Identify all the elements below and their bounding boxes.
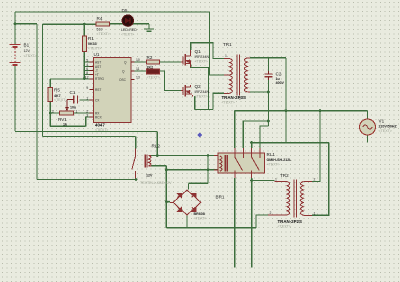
svg-text:U1: U1 [94, 52, 100, 57]
wire box top RTRG [50, 78, 91, 80]
svg-text:<TEXT>: <TEXT> [195, 94, 208, 98]
IC U1 4047 [94, 58, 132, 123]
wire C1 to CX pin [80, 99, 92, 101]
svg-text:12V: 12V [24, 49, 31, 53]
wire bridge top vertical [188, 183, 190, 189]
wire LED to ground [132, 23, 149, 25]
wire TR1 sec bottom to C2 [250, 91, 268, 93]
svg-text:0K33: 0K33 [88, 42, 97, 46]
svg-text:IRFZ44N: IRFZ44N [195, 55, 210, 59]
svg-text:LED-RED: LED-RED [121, 28, 137, 32]
svg-text:1k: 1k [63, 123, 67, 127]
svg-text:220V/50HZ: 220V/50HZ [379, 125, 398, 129]
svg-text:TR2: TR2 [280, 173, 289, 178]
IC right pin stubs [131, 61, 135, 63]
svg-text:D5: D5 [122, 8, 128, 13]
wire V1 bottom lead [367, 135, 369, 143]
svg-text:<TEXT>: <TEXT> [195, 59, 208, 63]
wire ground to RL2 coil wire [156, 132, 158, 156]
RL1 bottom pin stubs [235, 173, 252, 178]
svg-text:1: 1 [275, 178, 277, 182]
svg-text:2: 2 [314, 178, 316, 182]
svg-text:<TEXT>: <TEXT> [147, 76, 160, 80]
svg-text:TRAN-2P2S: TRAN-2P2S [278, 219, 302, 224]
IC left pin stubs [90, 61, 94, 63]
TR2 secondary winding [301, 182, 304, 216]
wire Q2 source [194, 96, 196, 109]
wire battery minus lead [14, 66, 16, 132]
wire RV1 right to RX pin [73, 112, 91, 114]
wire bottom rail [166, 227, 256, 229]
svg-text:Q1: Q1 [195, 49, 202, 54]
TR2 core [294, 180, 297, 218]
wire box left edge lower [49, 101, 51, 126]
TR2 primary winding [287, 182, 290, 216]
svg-text:9: 9 [86, 86, 88, 90]
svg-text:<TEXT>: <TEXT> [121, 33, 134, 37]
wire bridge top link [189, 182, 209, 184]
wire mains neutral to TR2 pin1 [312, 143, 329, 216]
LED D5 [122, 15, 133, 26]
svg-text:OSC: OSC [119, 78, 127, 82]
svg-text:<TEXT>: <TEXT> [54, 98, 67, 102]
wire battery line down to center tap [210, 12, 225, 75]
svg-text:13: 13 [136, 76, 140, 80]
svg-text:10: 10 [136, 58, 140, 62]
svg-text:RL2: RL2 [152, 144, 161, 149]
svg-text:C1: C1 [70, 90, 76, 95]
wire R1 top lead [83, 24, 85, 36]
wire box bottom [50, 125, 85, 127]
svg-text:1: 1 [76, 109, 78, 113]
svg-text:AST: AST [95, 61, 101, 65]
wire bridge bottom drop [186, 215, 188, 228]
svg-text:R1: R1 [88, 36, 94, 41]
wire MOSFET source tie rail [195, 109, 213, 111]
RL1 coil [220, 156, 222, 171]
relay RL2 [132, 149, 152, 179]
svg-text:C2: C2 [276, 72, 282, 77]
potentiometer RV1 [60, 111, 74, 115]
wire TR1 top vertical down [285, 58, 287, 143]
RL2 contact [135, 149, 137, 157]
svg-text:510: 510 [97, 28, 103, 32]
svg-text:1: 1 [225, 54, 227, 58]
svg-text:R2: R2 [147, 55, 153, 60]
wire relay to TR2 pin top left [252, 180, 275, 182]
wire R3 to Q2 gate [160, 71, 181, 91]
svg-text:Q2: Q2 [195, 84, 202, 89]
wire RL1 left pin 2 feed [166, 169, 217, 171]
RL2 coil [148, 156, 151, 166]
wire Q1 drain jog [191, 43, 224, 59]
svg-text:RCX: RCX [95, 116, 103, 120]
svg-text:B1: B1 [24, 43, 30, 48]
wire RV1 left [50, 112, 59, 114]
svg-text:<TEXT>: <TEXT> [95, 128, 108, 132]
wire branch battery to left vertical [15, 23, 37, 25]
resistor R4 [96, 22, 110, 26]
svg-text:2: 2 [270, 211, 272, 215]
svg-text:BR608: BR608 [194, 212, 205, 216]
wire RL2 coil top to RL1 left pin 1 [151, 155, 218, 157]
TR1 primary winding lower [230, 76, 233, 94]
wire rail to RL2 contact [37, 179, 136, 181]
transformer TR1 [224, 55, 250, 96]
svg-text:3: 3 [86, 114, 88, 118]
wire relay pin3 drop [251, 143, 253, 148]
svg-text:<TEXT>: <TEXT> [88, 47, 101, 51]
wire box left edge upper [49, 79, 51, 87]
transformer TR2 [268, 180, 312, 218]
RL1 left pin stubs [214, 156, 218, 170]
wire relay bottom dangling 1 [234, 178, 236, 268]
svg-text:<TEXT>: <TEXT> [24, 54, 37, 58]
relay RL1 [218, 153, 265, 173]
TR1 primary winding upper [230, 59, 233, 76]
resistor R2 [147, 60, 160, 64]
wire Q2 to TR1 pin3 [213, 93, 224, 109]
svg-text:400V: 400V [276, 81, 285, 85]
RL1 contact poles [235, 153, 244, 158]
svg-text:TRAN-2P3S: TRAN-2P3S [222, 95, 246, 100]
svg-text:TEXTELL-KBE-12V: TEXTELL-KBE-12V [140, 181, 172, 185]
svg-text:12V: 12V [146, 174, 153, 178]
svg-text:IRFZ44N: IRFZ44N [195, 90, 210, 94]
wire C2 node staircase to relay pin2 [267, 80, 269, 126]
capacitor C1 [74, 96, 78, 104]
wire C2 node staircase to relay pin4 [260, 126, 268, 148]
wire relay pin1 drop from rail [234, 111, 236, 148]
wire jog to RCX pin [86, 117, 91, 126]
wire Q1 source [191, 65, 209, 110]
BR1 diode marks [178, 194, 182, 198]
svg-text:2: 2 [52, 109, 54, 113]
wire top rail [15, 11, 210, 13]
wire relay bottom dangling 2 [251, 178, 253, 268]
wire to bridge left vertex [166, 201, 170, 203]
svg-text:11: 11 [136, 67, 140, 71]
wire left long vertical [36, 24, 38, 180]
wire TR1 sec top [250, 57, 286, 59]
svg-text:<TEXT>: <TEXT> [278, 225, 291, 229]
bridge rectifier BR1 [170, 190, 201, 215]
wire R4 R1 feed rail [43, 23, 97, 25]
svg-text:1: 1 [86, 97, 88, 101]
wire RL2 contact top [135, 137, 137, 149]
svg-text:RTRG: RTRG [95, 77, 104, 81]
svg-text:RV1: RV1 [58, 117, 67, 122]
wire IC Q pin to R2 [135, 61, 147, 63]
svg-text:TR1: TR1 [223, 42, 232, 47]
svg-text:<TEXT>: <TEXT> [222, 101, 235, 105]
resistor R5 [48, 87, 52, 101]
wire IC Qbar pin to R3 [135, 70, 147, 72]
TR1 secondary winding [244, 58, 247, 92]
transistor Q2 [181, 85, 193, 97]
svg-text:RST: RST [95, 88, 101, 92]
svg-text:V1: V1 [379, 119, 385, 124]
wire RL2 coil bottom lead [151, 165, 166, 167]
svg-text:BR1: BR1 [216, 195, 225, 200]
ground symbol [144, 24, 154, 32]
wire ground rail bottom of IC [15, 131, 157, 133]
svg-text:<TEXT>: <TEXT> [97, 32, 110, 36]
wire second vertical [42, 24, 44, 136]
resistor R3 [147, 69, 160, 74]
wire V1 bottom rail [252, 142, 329, 144]
svg-text:4047: 4047 [95, 123, 105, 128]
svg-text:OMIH-SH-212L: OMIH-SH-212L [267, 158, 293, 162]
wire Q1 gate [160, 61, 181, 63]
wire mains to TR2 pin2 [312, 111, 320, 182]
RL2 coil leads [148, 156, 151, 166]
svg-text:5: 5 [86, 59, 88, 63]
wire battery plus lead [14, 12, 16, 44]
svg-text:<TEXT>: <TEXT> [379, 129, 392, 133]
wire long vertical at 206.5 [207, 156, 209, 184]
AC source V1 [360, 119, 376, 135]
TR1 core [237, 55, 240, 96]
TR2 pin stubs [268, 182, 312, 216]
transistor Q1 [181, 50, 191, 67]
svg-text:R5: R5 [54, 88, 60, 93]
wire bottom rail up to TR2 [256, 215, 268, 228]
battery B1 [10, 44, 21, 65]
svg-text:1: 1 [314, 212, 316, 216]
wire C2 top lead [267, 58, 269, 71]
wire V1 top lead [367, 111, 369, 119]
wire relay pin1 rail to V1 top [235, 110, 368, 112]
TR1 secondary pin stubs [247, 58, 250, 92]
wire down to bridge left [165, 166, 167, 228]
svg-text:R4: R4 [97, 16, 103, 21]
origin marker [197, 133, 202, 138]
capacitor C2 [265, 74, 273, 77]
svg-text:2: 2 [239, 97, 241, 101]
TR1 primary pin stubs [224, 59, 230, 94]
resistor R1 [82, 36, 86, 52]
wire lower rail to RL2 contact [43, 136, 136, 138]
wire R1 bottom lead tie to IC pins [83, 52, 85, 80]
RL1 top pin stubs [235, 148, 260, 153]
svg-text:<TEXT>: <TEXT> [194, 217, 207, 221]
wire R4 to LED [110, 23, 125, 25]
svg-text:<TEXT>: <TEXT> [267, 163, 280, 167]
svg-text:RL1: RL1 [267, 152, 276, 157]
svg-text:8: 8 [86, 71, 88, 75]
